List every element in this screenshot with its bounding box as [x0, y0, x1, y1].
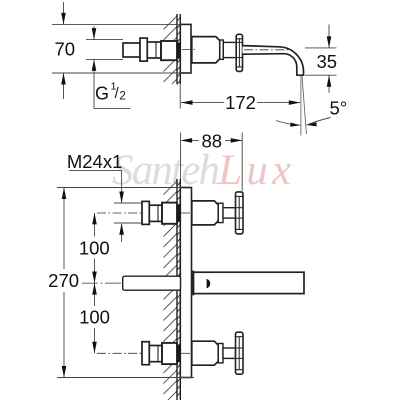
svg-text:88: 88 [202, 130, 223, 151]
svg-text:G: G [95, 83, 109, 103]
svg-text:100: 100 [79, 238, 110, 259]
svg-text:M24x1: M24x1 [67, 151, 123, 172]
svg-text:270: 270 [48, 270, 79, 291]
svg-text:2: 2 [119, 90, 125, 102]
svg-text:172: 172 [225, 92, 256, 113]
svg-text:70: 70 [55, 39, 76, 60]
svg-text:5°: 5° [329, 97, 347, 118]
svg-text:100: 100 [79, 306, 110, 327]
svg-text:SantehLux: SantehLux [112, 147, 295, 194]
svg-text:35: 35 [317, 51, 338, 72]
